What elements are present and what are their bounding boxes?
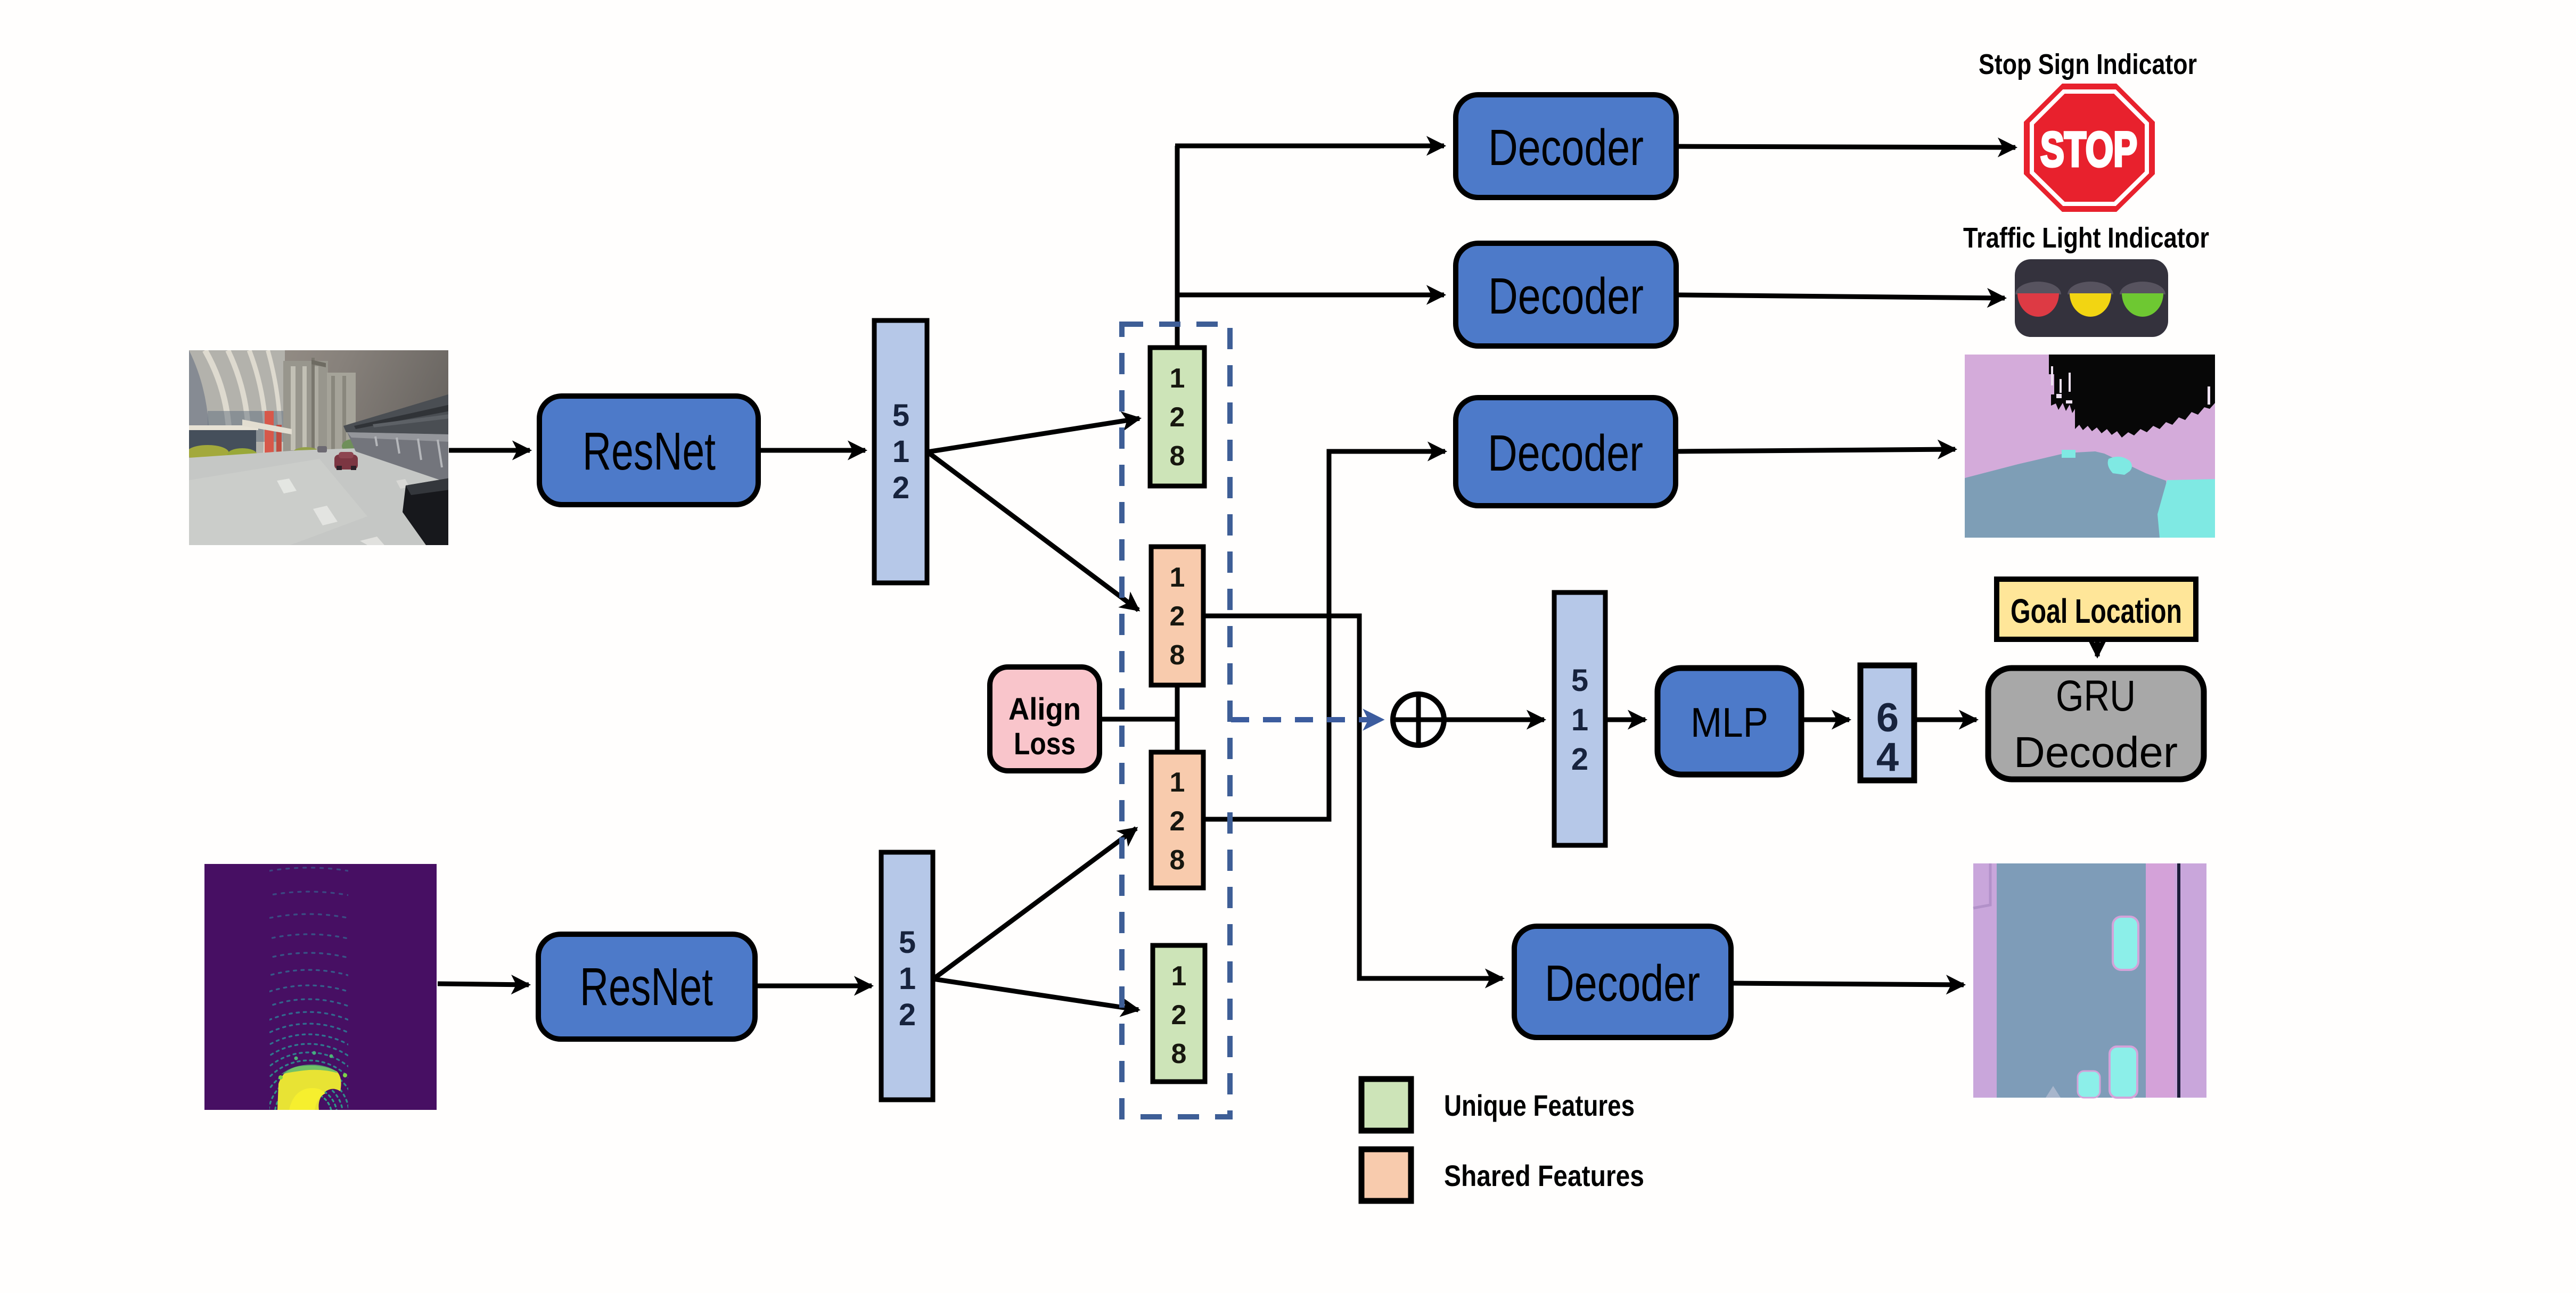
svg-text:Decoder: Decoder: [1488, 119, 1644, 176]
wire camera image to ResNet1: [449, 448, 530, 453]
svg-text:1: 1: [1170, 562, 1185, 593]
mid tall buildings: [283, 361, 328, 454]
legend shared features swatch: [1361, 1149, 1411, 1201]
wire ResNet2 to 512 bar F2: [756, 984, 872, 989]
Decoder D1 (stop sign head): [1456, 95, 1676, 197]
wire 64 bar to GRU decoder: [1915, 718, 1976, 722]
ego black car: [403, 478, 450, 545]
svg-text:1: 1: [1170, 767, 1185, 798]
svg-text:Goal Location: Goal Location: [2011, 592, 2182, 630]
wire ResNet1 to 512 bar F1: [759, 448, 865, 453]
legend unique features swatch: [1361, 1079, 1411, 1131]
svg-text:6: 6: [1876, 695, 1899, 740]
svg-text:1: 1: [1171, 961, 1187, 992]
ResNet encoder U2 (lidar branch): [538, 934, 755, 1039]
svg-text:4: 4: [1876, 735, 1899, 780]
svg-text:Stop Sign Indicator: Stop Sign Indicator: [1979, 48, 2197, 80]
right dark structure above wall: [343, 394, 450, 437]
svg-text:Shared Features: Shared Features: [1444, 1159, 1644, 1192]
128 shared feature bar S1: [1151, 547, 1203, 685]
svg-text:STOP: STOP: [2040, 122, 2137, 177]
lidar BEV input image: [61, 864, 556, 1115]
svg-text:Decoder: Decoder: [1545, 955, 1700, 1012]
svg-text:2: 2: [899, 998, 916, 1032]
wire between shared 128 bars: [1175, 686, 1180, 752]
svg-text:1: 1: [1571, 703, 1588, 737]
maroon car: [334, 455, 358, 470]
svg-text:Decoder: Decoder: [1488, 268, 1644, 325]
Goal Location box: [1997, 579, 2196, 639]
wire Decoder1 to stop sign: [1677, 146, 2015, 147]
lane markings: [277, 479, 297, 493]
svg-text:2: 2: [1171, 1000, 1187, 1031]
wire 512 F3 to MLP: [1606, 718, 1645, 722]
small car ahead: [317, 446, 327, 452]
greenery: [353, 430, 385, 454]
wire Decoder4 to BEV output: [1732, 983, 1964, 985]
svg-text:2: 2: [892, 471, 909, 505]
svg-text:Align: Align: [1008, 692, 1081, 727]
GRU Decoder box: [1988, 668, 2204, 779]
svg-text:2: 2: [1170, 402, 1185, 433]
camera RGB input image: [186, 350, 464, 545]
svg-text:Decoder: Decoder: [2014, 728, 2178, 777]
svg-text:5: 5: [1571, 663, 1588, 698]
svg-text:2: 2: [1571, 742, 1588, 777]
segmentation output image: [1965, 355, 2215, 538]
traffic light icon: [2015, 259, 2168, 337]
64 bar: [1860, 665, 1914, 780]
svg-text:Decoder: Decoder: [1488, 425, 1643, 482]
svg-text:Unique Features: Unique Features: [1444, 1089, 1635, 1122]
dashed wire shared features to concat: [1231, 717, 1382, 722]
Decoder D2 (traffic light head): [1456, 243, 1676, 346]
512 feature bar F2 (lidar): [881, 852, 933, 1100]
svg-text:Loss: Loss: [1014, 727, 1076, 761]
awning building left: [189, 429, 256, 456]
svg-text:1: 1: [1170, 363, 1185, 394]
512 feature bar F1 (camera): [874, 320, 927, 583]
wire lidar image to ResNet2: [438, 984, 529, 985]
wire unique U1 up to decoder branch (vertical): [1175, 146, 1180, 348]
left stadium building: [189, 350, 285, 454]
svg-text:8: 8: [1170, 845, 1185, 876]
wire MLP to 64 bar: [1802, 718, 1849, 722]
right wall: [347, 432, 450, 483]
wire Align Loss to shared bars junction: [1100, 717, 1177, 722]
128 unique feature bar U1: [1150, 348, 1204, 486]
svg-text:8: 8: [1171, 1039, 1187, 1069]
svg-text:5: 5: [892, 398, 909, 433]
128 shared feature bar S2: [1151, 752, 1203, 888]
Align Loss box: [990, 667, 1100, 771]
wire 512 F2 to unique 128 U2: [933, 979, 1138, 1010]
wire concat to 512 bar F3: [1446, 718, 1544, 722]
wire branch to Decoder1: [1175, 144, 1444, 149]
Decoder D4 (BEV head): [1514, 926, 1731, 1037]
svg-text:1: 1: [892, 434, 909, 469]
512 fused bar F3: [1554, 592, 1605, 845]
Decoder D3 (segmentation head): [1456, 398, 1676, 506]
wire 512 F1 to unique 128 U1: [928, 418, 1139, 452]
svg-text:2: 2: [1170, 601, 1185, 632]
red pillars: [265, 411, 274, 454]
wire Decoder3 to segmentation output: [1677, 449, 1955, 451]
svg-text:Traffic Light Indicator: Traffic Light Indicator: [1963, 222, 2209, 254]
svg-text:2: 2: [1170, 806, 1185, 837]
concat node (circled plus): [1393, 694, 1444, 745]
wire shared S2 right-up to Decoder3: [1204, 451, 1444, 819]
BEV output image: [1973, 863, 2206, 1098]
wire Decoder2 to traffic light: [1677, 295, 2005, 298]
ResNet encoder U1 (camera branch): [539, 396, 758, 505]
svg-text:5: 5: [899, 925, 916, 960]
svg-text:8: 8: [1170, 441, 1185, 472]
svg-text:1: 1: [899, 961, 916, 996]
svg-text:MLP: MLP: [1691, 699, 1768, 746]
wire shared S1 right-down to Decoder4: [1204, 616, 1502, 978]
wire 512 F1 to shared 128 S1: [928, 452, 1138, 610]
lidar near-field bright returns: [277, 1066, 341, 1110]
svg-text:ResNet: ResNet: [580, 957, 713, 1017]
road: [189, 448, 450, 545]
street light pole: [311, 358, 315, 454]
svg-text:ResNet: ResNet: [583, 422, 716, 481]
wire 512 F2 to shared 128 S2: [933, 828, 1136, 979]
svg-text:8: 8: [1170, 640, 1185, 671]
stop sign icon: [2024, 84, 2155, 212]
wire branch to Decoder2: [1177, 293, 1444, 298]
svg-text:GRU: GRU: [2056, 672, 2136, 720]
MLP block: [1658, 668, 1801, 775]
128 unique feature bar U2: [1153, 945, 1205, 1082]
dashed feature container box: [1122, 324, 1230, 1117]
wire Goal Location down to GRU decoder: [2095, 640, 2100, 656]
